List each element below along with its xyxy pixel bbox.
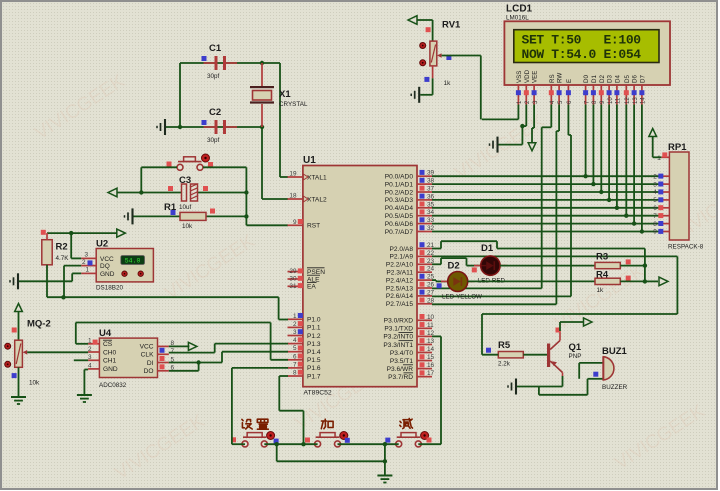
pin GND (4) U4 left: [88, 363, 118, 374]
pin 1 RP1: [657, 152, 669, 162]
push button SET (shezhi): [242, 432, 275, 447]
svg-text:P3.6/WR: P3.6/WR: [387, 366, 414, 373]
terminal arrow RV1 top: [408, 16, 417, 25]
svg-text:CH1: CH1: [103, 358, 117, 365]
svg-text:P0.2/AD2: P0.2/AD2: [385, 189, 414, 196]
junction at (246.4,216.4): [244, 214, 248, 218]
svg-text:P0.0/AD0: P0.0/AD0: [385, 174, 414, 181]
svg-text:11: 11: [427, 322, 434, 329]
pin 2 RP1: [653, 173, 669, 180]
svg-text:P0.5/AD5: P0.5/AD5: [385, 213, 414, 220]
wire R4 right: [620, 280, 645, 282]
terminal arrow right of R4: [659, 277, 668, 286]
wire R2 bottom to DQ net: [46, 265, 48, 297]
junction LCD D5 at row: [624, 214, 628, 218]
wire P3.2 INT0 to MINUS riser: [432, 335, 441, 337]
state square SET right: [274, 439, 279, 444]
state square PLUS right: [345, 438, 350, 443]
svg-text:10: 10: [608, 97, 614, 104]
svg-text:30pf: 30pf: [207, 73, 220, 80]
svg-text:10uf: 10uf: [179, 204, 192, 211]
svg-text:D2: D2: [448, 261, 460, 272]
wire P0.2 row to RP1 pin 4: [432, 191, 661, 193]
lcd screen: [514, 30, 659, 63]
pin 7 RP1: [653, 213, 669, 220]
svg-text:6: 6: [293, 353, 297, 360]
junction at (63.5,297.3): [61, 295, 65, 299]
svg-text:CRYSTAL: CRYSTAL: [279, 101, 308, 108]
svg-text:1: 1: [88, 338, 92, 345]
wire U4 VCC to power arrow: [169, 345, 190, 347]
capacitor C2: [204, 120, 238, 134]
wire LCD D4 column x=616.9: [616, 105, 618, 208]
wire LCD VEE column: [533, 105, 535, 129]
wire DQ net to P1.0: [278, 297, 280, 319]
state square C1: [202, 56, 207, 61]
svg-text:3: 3: [653, 181, 657, 188]
pin P3.7/RD (17) U1 right: [388, 370, 434, 381]
wire P0.1 row to RP1 pin 3: [432, 183, 661, 185]
state square PLUS left: [305, 438, 310, 443]
svg-text:R2: R2: [56, 242, 68, 253]
svg-text:VCC: VCC: [100, 256, 114, 263]
pin VSS (1) LCD: [516, 71, 523, 105]
svg-text:D6: D6: [632, 75, 639, 83]
wire LCD D0 column x=585.6: [585, 105, 587, 177]
svg-text:VEE: VEE: [532, 71, 539, 83]
svg-text:54.0: 54.0: [125, 257, 141, 264]
svg-text:D7: D7: [640, 75, 647, 83]
pin P1.2 (3) U1 left: [288, 329, 321, 340]
svg-text:C1: C1: [209, 43, 222, 54]
svg-text:EA: EA: [307, 284, 316, 291]
svg-text:30: 30: [289, 276, 297, 283]
svg-text:R4: R4: [596, 270, 609, 281]
wire R3 right: [620, 265, 645, 267]
label MINUS chinese: [400, 419, 413, 429]
svg-text:P3.2/INT0: P3.2/INT0: [383, 334, 413, 341]
pin P1.6 (7) U1 left: [288, 361, 321, 372]
wire R1 row y=216.4: [134, 215, 181, 217]
power arrow MQ-2: [15, 304, 23, 312]
pin 8 RP1: [653, 221, 669, 228]
wire XTAL1 drop x=280: [279, 63, 281, 177]
ground near C2: [157, 119, 165, 135]
wire P1.6 to SET riser: [232, 367, 288, 369]
lcd LCD1 body: [504, 21, 670, 85]
resistor R3: [595, 262, 620, 268]
pin 6 RP1: [653, 205, 669, 212]
wire P0.6 row to RP1 pin 8: [432, 223, 661, 225]
svg-text:R3: R3: [596, 252, 608, 263]
wire R5 to Q1 base: [523, 354, 547, 356]
pin P2.3/A11 (24) U1 right: [386, 266, 434, 277]
junction at (384.9,461.3): [383, 459, 387, 463]
wire RST row y=225.3: [246, 224, 288, 226]
terminal arrow Q1 collector: [584, 318, 593, 326]
svg-text:D1: D1: [591, 75, 598, 83]
state square R1 right: [210, 209, 215, 214]
svg-text:26: 26: [427, 282, 435, 289]
wire LCD D3 column x=609.1: [608, 105, 610, 200]
wire D2 to R4: [468, 280, 595, 282]
pin E (6) LCD: [566, 79, 573, 105]
wire U4 GND down: [84, 369, 88, 371]
wire LCD VSS column: [517, 105, 519, 120]
junction at (71.2,233.1): [69, 231, 73, 235]
wire reset button row y=167.3: [141, 166, 177, 168]
pin RW (5) LCD: [557, 73, 564, 105]
svg-text:P1.6: P1.6: [307, 365, 321, 372]
pin VEE (3) LCD: [532, 71, 539, 105]
pin ALE (30) U1 left: [288, 275, 321, 283]
svg-text:P2.5/A13: P2.5/A13: [386, 285, 413, 292]
svg-text:P3.4/T0: P3.4/T0: [390, 350, 413, 357]
junction at (246.4,192.5): [244, 190, 248, 194]
svg-text:LCD1: LCD1: [506, 4, 533, 15]
svg-text:D2: D2: [599, 75, 606, 83]
svg-text:D1: D1: [481, 243, 494, 254]
pin D7 (14) LCD: [639, 75, 646, 105]
svg-text:12: 12: [625, 97, 631, 104]
svg-text:4: 4: [88, 363, 92, 370]
pin CLK (7) U4 right: [141, 348, 175, 359]
buzzer BUZ1: [603, 357, 614, 380]
pin 4 RP1: [653, 189, 669, 196]
state square MINUS right: [427, 438, 432, 443]
pin EA (31) U1 left: [288, 283, 317, 291]
pin VCC (3) U2: [81, 251, 96, 258]
ground arrow LCD VEE: [528, 143, 536, 151]
wire P0.7 row to RP1 pin 9: [432, 231, 661, 233]
gas sensor MQ-2: [5, 340, 28, 367]
svg-text:10k: 10k: [182, 223, 193, 230]
wire P2.7 row to LCD RW column: [432, 303, 556, 305]
pin DI (5) U4 right: [147, 356, 175, 367]
pin PSEN (29) U1 left: [288, 268, 326, 276]
state square MQ-2 top: [12, 328, 17, 333]
pin P2.2/A10 (23) U1 right: [386, 258, 435, 269]
svg-text:ADC0832: ADC0832: [99, 382, 127, 389]
junction at (262,63): [260, 61, 264, 65]
svg-text:P3.0/RXD: P3.0/RXD: [384, 318, 414, 325]
transistor Q1 PNP: [547, 331, 563, 376]
svg-text:2: 2: [653, 173, 657, 180]
state square R1: [171, 210, 176, 215]
pin D5 (12) LCD: [624, 75, 631, 105]
state square reset button right: [208, 162, 213, 167]
junction at (262,127): [260, 125, 264, 129]
pin RST (9) U1 left: [288, 219, 321, 230]
svg-text:CLK: CLK: [141, 352, 154, 359]
pin P0.4/AD4 (35) U1 right: [385, 201, 435, 212]
wire U4 CLK to P1.3: [169, 352, 215, 354]
svg-text:U4: U4: [99, 328, 112, 339]
svg-text:PNP: PNP: [569, 353, 582, 360]
state square RV1 bottom: [424, 77, 429, 82]
terminal arrow VCC U2: [117, 229, 126, 237]
svg-text:CH0: CH0: [103, 349, 117, 356]
junction at (276.7,444.2): [275, 442, 279, 446]
wire Q1 emitter down: [562, 376, 564, 387]
pin RS (4) LCD: [549, 74, 556, 104]
state square C3 right: [203, 186, 208, 191]
svg-text:P0.1/AD1: P0.1/AD1: [385, 181, 414, 188]
state square R4: [626, 276, 631, 281]
ground below MQ-2: [11, 397, 26, 404]
svg-text:P1.7: P1.7: [307, 373, 321, 380]
pin P0.3/AD3 (36) U1 right: [385, 193, 435, 204]
junction at (303.5,444.2): [301, 442, 305, 446]
svg-text:U1: U1: [303, 155, 316, 166]
wire buzzer top leg: [579, 362, 603, 364]
pin P2.5/A13 (26) U1 right: [386, 282, 435, 293]
pin CS (1) U4 left: [88, 338, 113, 349]
svg-text:D5: D5: [624, 75, 631, 83]
pin D6 (13) LCD: [632, 75, 639, 105]
svg-text:NOW T:54.0 E:054: NOW T:54.0 E:054: [522, 47, 642, 62]
svg-text:DO: DO: [144, 368, 154, 375]
svg-text:P1.4: P1.4: [307, 349, 321, 356]
wire buttons bus: [232, 443, 245, 445]
pin 9 RP1: [653, 229, 669, 236]
wire P0.4 row to RP1 pin 6: [432, 207, 661, 209]
svg-text:DS18B20: DS18B20: [96, 285, 123, 292]
pin P0.7/AD7 (32) U1 right: [385, 225, 435, 236]
svg-text:P1.0: P1.0: [307, 317, 321, 324]
svg-text:19: 19: [289, 171, 297, 178]
pin P0.2/AD2 (37) U1 right: [385, 186, 435, 197]
ground near LCD: [490, 137, 498, 153]
svg-text:7: 7: [293, 361, 297, 368]
pin D0 (7) LCD: [583, 75, 590, 105]
svg-text:MQ-2: MQ-2: [27, 319, 51, 330]
svg-text:P2.6/A14: P2.6/A14: [386, 293, 413, 300]
pin P1.7 (8) U1 left: [288, 370, 321, 381]
wire hook from bus to ground drop: [276, 444, 278, 461]
pin VDD (2) LCD: [524, 69, 531, 104]
state square D2: [437, 283, 442, 288]
state square C3 left: [168, 186, 173, 191]
state square SET left: [231, 437, 236, 442]
svg-text:4: 4: [293, 337, 297, 344]
resistor R4: [595, 278, 620, 284]
svg-text:C2: C2: [209, 107, 221, 118]
svg-text:1k: 1k: [444, 80, 452, 87]
pin P3.2/INT0 (12) U1 right: [383, 330, 434, 341]
svg-text:1: 1: [85, 267, 89, 274]
label PLUS chinese: [321, 419, 333, 429]
pin XTAL2 (18) U1 left: [288, 193, 328, 204]
wire LCD D1 column x=593.4: [592, 105, 594, 185]
wire LCD D6 column x=634.1: [633, 105, 635, 224]
svg-text:14: 14: [427, 346, 435, 353]
wire P2.6 row to LCD E column: [432, 295, 571, 297]
wire LCD D2 column x=601.3: [600, 105, 602, 193]
wire U2 VCC net: [71, 257, 81, 259]
led D1 LED-RED: [474, 256, 507, 275]
U2 temperature display: [121, 256, 144, 265]
pin P3.6/WR (16) U1 right: [387, 362, 435, 373]
state square RV1 top: [426, 27, 431, 32]
state square BUZ1: [593, 372, 598, 377]
wire U4 CS net to P1.5: [76, 343, 88, 345]
junction LCD D3 at row: [607, 198, 611, 202]
wire P0.5 row to RP1 pin 7: [432, 215, 661, 217]
terminal arrow C3 row: [108, 188, 117, 197]
svg-text:2: 2: [82, 259, 86, 266]
ground near RV1: [411, 87, 419, 103]
svg-text:D0: D0: [583, 75, 590, 83]
svg-text:D4: D4: [615, 75, 622, 83]
svg-text:P2.4/A12: P2.4/A12: [386, 277, 413, 284]
pin 3 RP1: [653, 181, 669, 188]
wire C3 row y=192.5: [117, 192, 182, 194]
svg-text:P2.1/A9: P2.1/A9: [390, 254, 414, 261]
junction LCD D6 at row: [632, 221, 636, 225]
adc U4 body: [99, 338, 157, 377]
temperature sensor U2 body: [96, 249, 153, 282]
wire RV1 top: [417, 19, 433, 21]
wire D1 to R3: [500, 265, 595, 267]
wire buzzer bottom leg: [587, 379, 589, 395]
junction at (644.9,265.6): [643, 263, 647, 267]
capacitor C1: [204, 56, 238, 70]
svg-text:DQ: DQ: [100, 263, 110, 270]
wire ground drop buttons: [384, 444, 386, 474]
svg-text:31: 31: [289, 283, 297, 290]
pin D2 (9) LCD: [599, 75, 606, 105]
svg-text:28: 28: [427, 297, 435, 304]
wire RV1 wiper to VSS net: [442, 55, 481, 57]
pin VCC (8) U4 right: [140, 340, 175, 351]
ground near Q1: [508, 379, 516, 395]
wire C2 ground net y=127: [166, 126, 262, 128]
junction LCD D4 at row: [615, 206, 619, 210]
pin P0.1/AD1 (38) U1 right: [385, 178, 435, 189]
junction at (644.9,281.4): [643, 279, 647, 283]
svg-text:P0.3/AD3: P0.3/AD3: [385, 197, 414, 204]
wire U4 CH1 stub: [74, 359, 88, 361]
pin P3.1/TXD (11) U1 right: [384, 322, 434, 333]
crystal X1: [250, 63, 274, 127]
svg-text:RESPACK-8: RESPACK-8: [668, 244, 704, 251]
svg-text:E: E: [566, 79, 573, 83]
wire R2 top: [46, 233, 48, 240]
wire P2.5 row to LCD RS column: [432, 287, 542, 289]
wire MQ-2 bottom: [18, 367, 20, 396]
wire DQ down: [63, 266, 65, 298]
svg-text:1: 1: [293, 313, 297, 320]
svg-text:8: 8: [293, 370, 297, 377]
pin P1.4 (5) U1 left: [288, 345, 321, 356]
pin P2.4/A12 (25) U1 right: [386, 274, 435, 285]
resistor pack RP1 body: [669, 152, 689, 240]
svg-text:6: 6: [653, 205, 657, 212]
pin 5 RP1: [653, 197, 669, 204]
wire P0.0 row to RP1 pin 2: [432, 175, 661, 177]
capacitor C3 electrolytic: [182, 184, 198, 201]
wire XTAL2 drop x=262: [261, 127, 263, 199]
pin P2.1/A9 (22) U1 right: [390, 250, 435, 261]
state square MQ-2: [12, 373, 17, 378]
state square U4 CS: [93, 340, 98, 345]
svg-text:RS: RS: [549, 74, 556, 83]
svg-text:2.2k: 2.2k: [498, 361, 511, 368]
svg-text:17: 17: [427, 370, 435, 377]
svg-text:1k: 1k: [597, 287, 605, 294]
wire MQ-2 wiper to U4 CH0: [27, 351, 88, 353]
svg-text:30pf: 30pf: [207, 137, 220, 144]
wire MQ-2 top: [18, 312, 20, 341]
svg-text:P2.0/A8: P2.0/A8: [390, 246, 414, 253]
svg-text:13: 13: [427, 338, 435, 345]
svg-text:P0.6/AD6: P0.6/AD6: [385, 221, 414, 228]
resistor R5: [498, 352, 523, 358]
svg-text:U2: U2: [96, 239, 108, 250]
svg-text:P2.2/A10: P2.2/A10: [386, 262, 413, 269]
led D2 LED-YELLOW: [441, 272, 474, 292]
svg-text:GND: GND: [103, 366, 118, 373]
svg-text:C3: C3: [179, 175, 191, 186]
svg-text:15: 15: [427, 354, 435, 361]
svg-text:VSS: VSS: [516, 71, 523, 83]
power arrow RP1: [649, 129, 657, 137]
pin P1.5 (6) U1 left: [288, 353, 321, 364]
U2 pin texts: [100, 256, 115, 278]
pin D3 (10) LCD: [607, 75, 614, 105]
pin P1.1 (2) U1 left: [288, 321, 321, 332]
svg-text:9: 9: [293, 219, 297, 226]
resistor R1: [180, 212, 206, 220]
wire LCD VDD column: [525, 105, 527, 127]
wire DI DO to P1.4: [199, 362, 222, 364]
svg-text:5: 5: [653, 197, 657, 204]
junction LCD D0 at row: [583, 174, 587, 178]
svg-text:CS: CS: [103, 341, 113, 348]
wire LCD D7 column x=641.9: [641, 105, 643, 232]
svg-text:29: 29: [289, 268, 297, 275]
pin CH1 (3) U4 left: [88, 354, 117, 365]
ground below buttons: [377, 476, 392, 483]
push button MINUS (jian): [396, 432, 429, 447]
wire C1 top net y=63: [180, 62, 280, 64]
svg-text:3: 3: [88, 354, 92, 361]
svg-text:RW: RW: [557, 73, 564, 83]
svg-text:27: 27: [427, 289, 435, 296]
wire LCD D5 column x=626.3: [625, 105, 627, 216]
junction LCD D7 at row: [640, 229, 644, 233]
pin P1.3 (4) U1 left: [288, 337, 321, 348]
svg-text:4.7K: 4.7K: [56, 255, 70, 262]
svg-text:P0.4/AD4: P0.4/AD4: [385, 205, 414, 212]
mcu U1 body: [303, 166, 417, 387]
wire x=246.4 down to RST: [245, 193, 247, 226]
svg-text:RP1: RP1: [668, 142, 687, 153]
pin P2.6/A14 (27) U1 right: [386, 289, 435, 300]
svg-text:P0.7/AD7: P0.7/AD7: [385, 229, 414, 236]
svg-text:GND: GND: [100, 271, 115, 278]
wire RP1 pin1 to power: [653, 156, 662, 158]
svg-text:RST: RST: [307, 223, 320, 230]
wire P2.2 row with hop to D1: [432, 263, 441, 265]
svg-text:VCC: VCC: [140, 344, 154, 351]
pin XTAL1 (19) U1 left: [288, 171, 328, 182]
svg-text:VDD: VDD: [524, 69, 531, 83]
svg-text:P1.3: P1.3: [307, 341, 321, 348]
wire P2.0 row with hop to R3/R4 net: [432, 248, 441, 250]
junction LCD D2 at row: [599, 190, 603, 194]
